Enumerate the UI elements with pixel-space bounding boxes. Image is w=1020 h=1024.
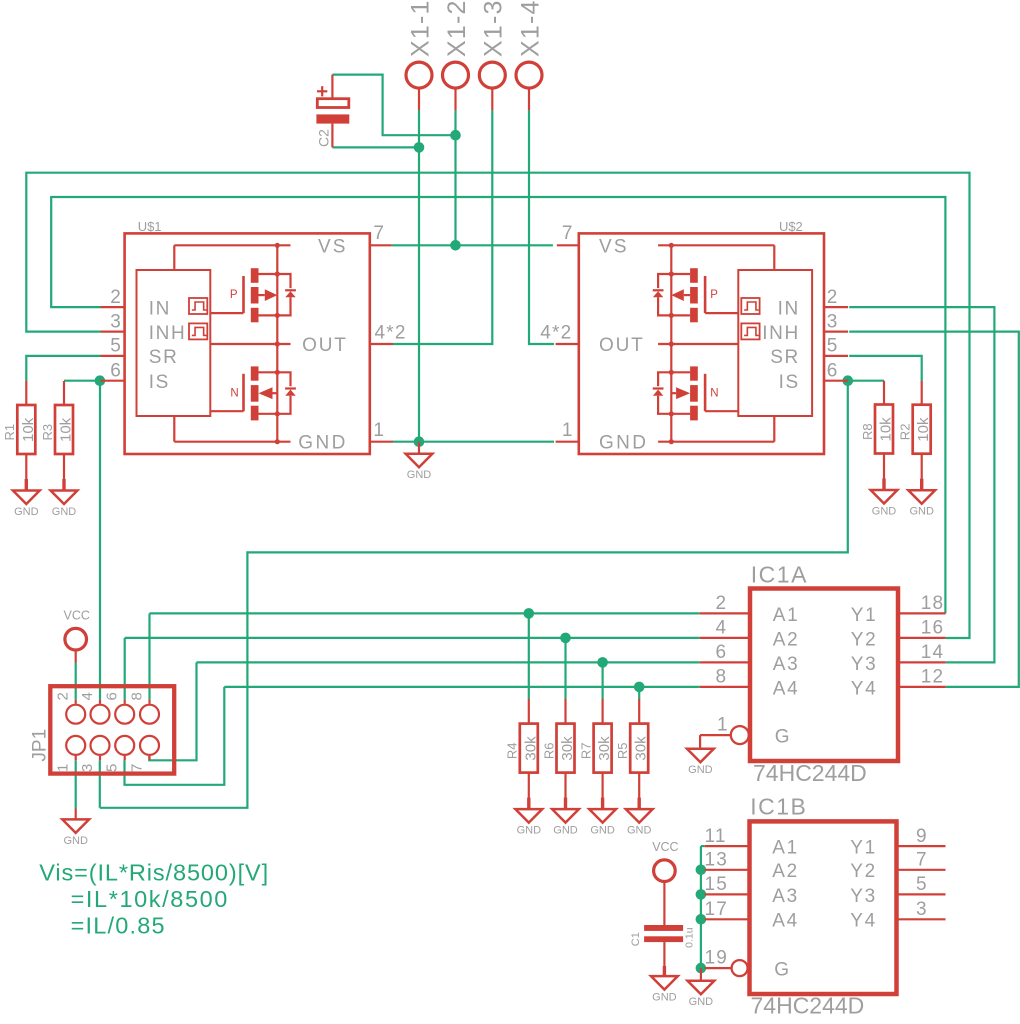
svg-text:GND: GND [590,825,615,837]
svg-text:15: 15 [705,874,729,895]
svg-text:C2: C2 [316,129,332,147]
svg-text:A2: A2 [773,629,799,650]
svg-text:GND: GND [872,506,897,518]
svg-text:1: 1 [55,764,72,772]
svg-text:GND: GND [909,506,934,518]
svg-text:6: 6 [827,361,838,382]
svg-text:10k: 10k [878,417,895,442]
svg-text:6: 6 [110,361,121,382]
svg-text:GND: GND [63,835,88,847]
svg-text:R7: R7 [578,742,593,759]
svg-text:IN: IN [778,298,800,319]
svg-text:JP1: JP1 [30,729,51,762]
svg-text:=IL/0.85: =IL/0.85 [71,912,166,938]
svg-text:GND: GND [14,506,39,518]
svg-text:3: 3 [916,899,927,920]
svg-text:3: 3 [79,764,96,772]
svg-text:VS: VS [599,236,629,257]
svg-text:8: 8 [129,692,146,700]
svg-text:4: 4 [79,692,96,700]
svg-text:11: 11 [705,826,727,847]
svg-text:16: 16 [921,618,945,639]
svg-text:GND: GND [627,825,652,837]
svg-text:A4: A4 [773,678,799,699]
svg-text:X1-3: X1-3 [480,0,508,57]
svg-text:12: 12 [921,667,945,688]
svg-text:R2: R2 [898,424,913,441]
svg-text:GND: GND [52,506,77,518]
svg-text:R5: R5 [615,742,630,759]
svg-text:17: 17 [705,899,729,920]
svg-text:P: P [230,289,238,301]
svg-text:4*2: 4*2 [540,323,572,344]
svg-text:Y4: Y4 [850,911,876,932]
svg-text:8: 8 [716,667,727,688]
svg-text:GND: GND [553,825,578,837]
svg-text:GND: GND [689,996,714,1008]
svg-text:G: G [775,727,790,748]
svg-text:A1: A1 [773,605,799,626]
svg-text:74HC244D: 74HC244D [753,760,867,786]
svg-text:R3: R3 [40,424,55,441]
svg-text:Y1: Y1 [850,838,876,859]
svg-text:74HC244D: 74HC244D [751,993,865,1019]
svg-text:INH: INH [762,323,800,344]
svg-text:IC1B: IC1B [750,793,807,819]
svg-text:N: N [710,388,718,400]
svg-text:X1-4: X1-4 [516,0,544,57]
svg-text:5: 5 [827,336,838,357]
svg-text:X1-1: X1-1 [406,0,434,57]
svg-text:G: G [774,960,789,981]
svg-text:R6: R6 [541,742,556,759]
svg-text:13: 13 [705,850,729,871]
svg-text:2: 2 [55,692,72,700]
svg-text:7: 7 [562,223,573,244]
svg-text:A4: A4 [772,911,798,932]
svg-text:N: N [230,388,238,400]
svg-text:Y2: Y2 [851,629,877,650]
svg-text:Vis=(IL*Ris/8500)[V]: Vis=(IL*Ris/8500)[V] [39,859,269,885]
svg-text:C1: C1 [630,932,642,946]
svg-text:A3: A3 [773,654,799,675]
svg-text:Y3: Y3 [850,886,876,907]
svg-text:R8: R8 [860,423,875,440]
svg-text:GND: GND [407,469,432,481]
svg-text:X1-2: X1-2 [443,0,471,57]
svg-text:IN: IN [149,298,171,319]
svg-text:3: 3 [827,311,838,332]
svg-text:A3: A3 [772,886,798,907]
svg-text:2: 2 [110,287,121,308]
svg-text:10k: 10k [915,417,932,442]
svg-text:1: 1 [562,420,573,441]
svg-text:IS: IS [149,372,170,393]
svg-text:R4: R4 [505,742,520,759]
svg-text:Y3: Y3 [851,654,877,675]
svg-text:INH: INH [149,323,187,344]
svg-text:7: 7 [129,764,146,772]
svg-text:U$1: U$1 [138,219,162,234]
svg-text:GND: GND [652,992,677,1004]
svg-text:5: 5 [104,764,121,772]
svg-text:1: 1 [717,715,728,736]
svg-text:18: 18 [921,593,945,614]
svg-text:5: 5 [110,336,121,357]
svg-text:VS: VS [318,236,348,257]
svg-text:9: 9 [916,826,927,847]
svg-text:1: 1 [373,420,384,441]
svg-text:10k: 10k [58,417,75,442]
svg-text:Y2: Y2 [850,861,876,882]
svg-text:5: 5 [916,874,927,895]
svg-text:GND: GND [688,764,713,776]
svg-text:GND: GND [517,825,542,837]
svg-text:30k: 30k [522,736,539,761]
svg-text:GND: GND [599,433,648,454]
svg-text:10k: 10k [20,417,37,442]
svg-text:OUT: OUT [599,335,645,356]
svg-text:R1: R1 [2,424,17,441]
svg-text:7: 7 [916,850,927,871]
svg-text:6: 6 [716,642,727,663]
svg-text:VCC: VCC [652,840,678,854]
svg-text:OUT: OUT [302,335,348,356]
svg-text:Y1: Y1 [851,605,877,626]
svg-text:30k: 30k [596,736,613,761]
svg-text:SR: SR [770,347,800,368]
svg-text:A2: A2 [772,861,798,882]
svg-text:2: 2 [827,287,838,308]
svg-text:0.1u: 0.1u [683,927,695,948]
svg-text:30k: 30k [633,736,650,761]
svg-text:GND: GND [298,433,347,454]
svg-text:U$2: U$2 [779,219,803,234]
svg-text:30k: 30k [559,736,576,761]
svg-text:P: P [710,289,718,301]
svg-text:14: 14 [921,642,945,663]
svg-text:4*2: 4*2 [375,323,407,344]
svg-text:VCC: VCC [63,609,89,623]
svg-text:A1: A1 [772,838,798,859]
svg-text:=IL*10k/8500: =IL*10k/8500 [71,886,229,912]
svg-text:19: 19 [705,948,729,969]
svg-text:4: 4 [716,618,727,639]
svg-text:SR: SR [149,347,179,368]
svg-text:IS: IS [779,372,800,393]
svg-text:6: 6 [104,692,121,700]
svg-text:7: 7 [373,223,384,244]
svg-text:Y4: Y4 [851,678,877,699]
svg-text:2: 2 [716,593,727,614]
svg-text:3: 3 [110,311,121,332]
svg-text:IC1A: IC1A [751,562,808,588]
